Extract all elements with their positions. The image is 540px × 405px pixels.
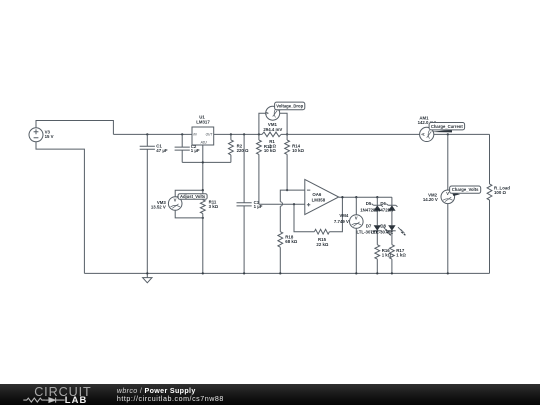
junction VM2 top bbox=[447, 133, 449, 135]
wire hop over plus wire bbox=[280, 202, 282, 206]
svg-text:VM4: VM4 bbox=[339, 213, 349, 218]
resistor R16 1k bbox=[375, 245, 392, 274]
svg-text:LAB: LAB bbox=[65, 394, 88, 405]
svg-text:1 kΩ: 1 kΩ bbox=[396, 252, 406, 257]
svg-text:22 kΩ: 22 kΩ bbox=[316, 242, 328, 247]
svg-text:V: V bbox=[355, 216, 358, 221]
svg-text:10 kΩ: 10 kΩ bbox=[264, 148, 276, 153]
svg-text:Charge_Current: Charge_Current bbox=[431, 124, 463, 129]
resistor R17 1k bbox=[390, 245, 407, 274]
junction gnd R16 bbox=[376, 272, 378, 274]
regulator U1 LM317 bbox=[192, 115, 214, 145]
zener D6 1N4728A bbox=[375, 197, 398, 225]
svg-text:1N4728A: 1N4728A bbox=[375, 207, 394, 212]
svg-text:D6: D6 bbox=[380, 201, 386, 206]
wire op-amp output rail bbox=[339, 196, 392, 198]
footer text bbox=[117, 387, 224, 403]
svg-text:LTL-307EE: LTL-307EE bbox=[371, 229, 393, 234]
resistor R15 22k feedback bbox=[294, 197, 342, 247]
junction gnd R18 bbox=[279, 272, 281, 274]
capacitor C3 1uF bbox=[237, 134, 263, 273]
svg-text:ADJ: ADJ bbox=[200, 141, 207, 145]
voltmeter VM1 Voltage_Drop bbox=[259, 106, 287, 134]
svg-text:1 µF: 1 µF bbox=[191, 148, 200, 153]
svg-text:V: V bbox=[264, 112, 269, 115]
svg-text:3 kΩ: 3 kΩ bbox=[209, 204, 219, 209]
svg-text:15 V: 15 V bbox=[45, 134, 54, 139]
wire to R18 bbox=[279, 206, 281, 232]
svg-text:V: V bbox=[446, 191, 449, 196]
junction D5 top bbox=[376, 196, 378, 198]
junction VM4 top bbox=[355, 196, 357, 198]
svg-text:LM358: LM358 bbox=[312, 197, 326, 202]
capacitor C1 47uF bbox=[140, 134, 168, 273]
voltage source V3 bbox=[29, 128, 54, 142]
svg-text:D7: D7 bbox=[366, 223, 372, 228]
wire rail AM1 to R_Load bbox=[434, 133, 490, 135]
resistor R14 10k bbox=[285, 134, 305, 190]
junction gnd C1 bbox=[146, 272, 148, 274]
resistor R_Load 100 bbox=[487, 134, 510, 273]
junction ADJ bbox=[202, 161, 204, 163]
svg-text:Voltage_Drop: Voltage_Drop bbox=[276, 104, 303, 109]
capacitor C2 1uF bbox=[175, 134, 200, 162]
op-amp OA6 LM358 bbox=[305, 179, 339, 214]
resistor R13 10k bbox=[257, 134, 277, 204]
junction feedback bbox=[341, 196, 343, 198]
LED D7 LTL-307EE bbox=[356, 223, 391, 244]
svg-text:Charge_Volts: Charge_Volts bbox=[452, 187, 479, 192]
wire V3 top to main rail bbox=[36, 121, 113, 135]
svg-text:A: A bbox=[420, 133, 425, 136]
svg-text:LM317: LM317 bbox=[196, 120, 210, 125]
junction gnd C3 bbox=[243, 272, 245, 274]
junction VM3 bottom tap bbox=[202, 217, 204, 219]
svg-text:220 Ω: 220 Ω bbox=[237, 148, 249, 153]
LED D8 LTL-307EE bbox=[371, 223, 406, 244]
wire op-amp plus input bbox=[259, 203, 305, 205]
wire main rail to AM1 bbox=[281, 133, 420, 135]
footer bar bbox=[0, 384, 540, 405]
zener D5 1N4728A bbox=[360, 197, 383, 225]
wire main rail left segment bbox=[113, 133, 192, 135]
svg-text:10 kΩ: 10 kΩ bbox=[292, 148, 304, 153]
wire ground rail bbox=[84, 272, 489, 274]
wire main rail OUT segment bbox=[214, 133, 262, 135]
ammeter AM1 Charge_Current bbox=[418, 115, 438, 141]
label box Charge_Current bbox=[429, 123, 465, 133]
junction VM1 right / R14 bbox=[286, 133, 288, 135]
label box Adjust_Volts bbox=[177, 194, 208, 200]
resistor R1 2ohm (in rail) bbox=[262, 132, 281, 149]
svg-text:Adjust_Volts: Adjust_Volts bbox=[180, 194, 206, 199]
svg-text:D8: D8 bbox=[380, 223, 386, 228]
CircuitLab logo bbox=[0, 384, 110, 405]
ground bbox=[143, 273, 152, 282]
junction VM3 top tap bbox=[202, 189, 204, 191]
svg-text:14.20 V: 14.20 V bbox=[423, 197, 438, 202]
junction gnd R17 bbox=[391, 272, 393, 274]
junction C2 / U1 IN bbox=[181, 133, 183, 135]
svg-text:V: V bbox=[174, 198, 177, 203]
wire op-amp minus input bbox=[280, 190, 305, 202]
svg-text:D5: D5 bbox=[366, 201, 372, 206]
label box Charge_Volts bbox=[450, 186, 481, 196]
junction VM1 left / R13 bbox=[258, 133, 260, 135]
junction gnd R11 bbox=[202, 272, 204, 274]
junction C1 top bbox=[146, 133, 148, 135]
svg-text:68 kΩ: 68 kΩ bbox=[285, 239, 297, 244]
label box Voltage_Drop bbox=[275, 102, 305, 110]
svg-text:7.749 V: 7.749 V bbox=[334, 219, 349, 224]
svg-text:13.52 V: 13.52 V bbox=[151, 205, 166, 210]
svg-text:294.4 mV: 294.4 mV bbox=[263, 127, 282, 132]
svg-text:1 µF: 1 µF bbox=[254, 204, 263, 209]
junction gnd VM2 bbox=[447, 272, 449, 274]
svg-text:100 Ω: 100 Ω bbox=[494, 190, 506, 195]
resistor R18 68k bbox=[278, 232, 298, 274]
junction plus input / R15 bbox=[293, 203, 295, 205]
voltmeter VM4 bbox=[334, 197, 363, 273]
wire V3 bottom to ground rail bbox=[36, 142, 84, 274]
svg-text:47 µF: 47 µF bbox=[156, 148, 168, 153]
voltmeter VM3 Adjust_Volts bbox=[151, 190, 203, 218]
junction C3 top bbox=[243, 133, 245, 135]
svg-text:OUT: OUT bbox=[206, 133, 214, 137]
junction gnd VM4 bbox=[355, 272, 357, 274]
voltmeter VM2 Charge_Volts bbox=[423, 134, 455, 273]
resistor R11 3k bbox=[200, 190, 218, 273]
resistor R2 220 bbox=[228, 134, 249, 162]
junction R2 top bbox=[230, 133, 232, 135]
wire ADJ net bbox=[182, 145, 231, 190]
junction R14 bottom bbox=[286, 189, 288, 191]
